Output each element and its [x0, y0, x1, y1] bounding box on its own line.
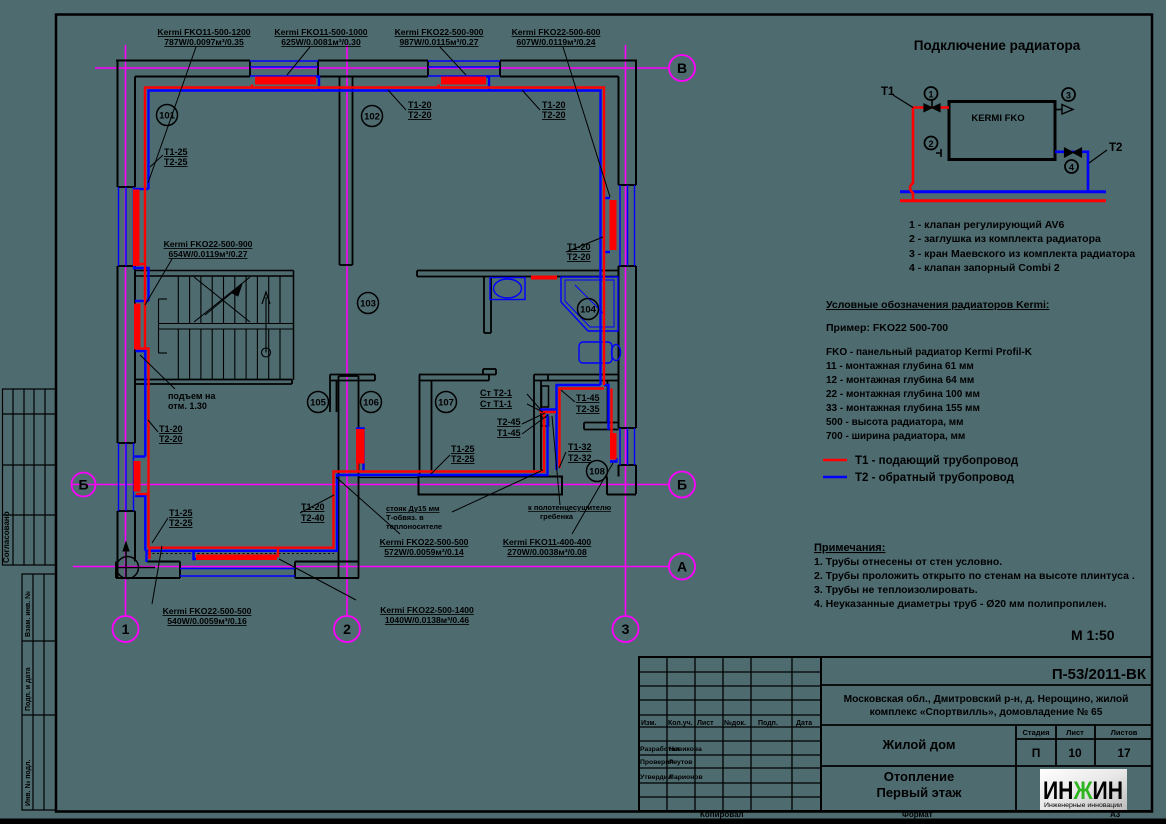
top run with corner: [149, 91, 601, 386]
svg-text:Т2-20: Т2-20: [408, 110, 432, 120]
svg-text:Ст Т2-1: Ст Т2-1: [480, 388, 512, 398]
svg-text:Т1 - подающий трубопровод: Т1 - подающий трубопровод: [855, 455, 1019, 467]
R8 blue: [356, 429, 364, 473]
svg-text:Т2-45: Т2-45: [497, 417, 521, 427]
svg-text:105: 105: [310, 398, 327, 409]
top wall pier caps: [249, 61, 251, 77]
svg-text:787W/0.0097м³/0.35: 787W/0.0097м³/0.35: [164, 37, 244, 47]
svg-text:Kermi FKO22-500-600: Kermi FKO22-500-600: [512, 27, 601, 37]
R8 room106 wall: [356, 429, 365, 464]
svg-text:П-53/2011-ВК: П-53/2011-ВК: [1052, 666, 1147, 683]
bottom loop: [149, 412, 545, 548]
staircase: [159, 276, 294, 380]
svg-text:10: 10: [1068, 746, 1082, 760]
valve 1 bowtie: [924, 104, 940, 112]
svg-text:Б: Б: [78, 477, 88, 493]
svg-text:Т2: Т2: [1109, 142, 1122, 154]
R3 jog: [135, 455, 146, 457]
stair top boundary: [134, 271, 294, 381]
svg-text:1: 1: [928, 90, 933, 100]
svg-text:4. Неуказанные диаметры труб -: 4. Неуказанные диаметры труб - Ø20 мм по…: [814, 598, 1107, 610]
R4 hook right: [277, 548, 278, 556]
bottom black band: [0, 819, 1166, 824]
axis A horizontal: [73, 566, 669, 568]
svg-text:Т2-35: Т2-35: [576, 404, 600, 414]
R8 red drop: [356, 463, 358, 472]
svg-text:Т1-25: Т1-25: [169, 508, 193, 518]
svg-text:Реутов: Реутов: [669, 759, 693, 766]
svg-text:Т2-25: Т2-25: [169, 518, 193, 528]
svg-text:3: 3: [622, 621, 630, 637]
top wall outer piers: [116, 60, 250, 62]
svg-text:Московская обл., Дмитровский р: Московская обл., Дмитровский р-н, д. Нер…: [844, 693, 1129, 705]
R2 stair left wall: [134, 304, 141, 350]
svg-text:Утвердил: Утвердил: [640, 774, 672, 781]
svg-text:Лист: Лист: [697, 720, 714, 727]
top wall inner: [135, 76, 250, 78]
stair bottom wall: [134, 380, 292, 385]
blue return T2 network: [134, 77, 617, 563]
R6 top wall W2: [441, 77, 486, 85]
svg-text:KERMI FKO: KERMI FKO: [971, 113, 1024, 124]
svg-text:11 - монтажная глубина 61 мм: 11 - монтажная глубина 61 мм: [826, 360, 974, 372]
bottom loop: [145, 414, 547, 551]
left wall window2: [118, 443, 120, 511]
entry drop: [145, 551, 147, 562]
R2 jog: [135, 300, 149, 302]
R1 jog: [135, 188, 149, 190]
svg-text:572W/0.0059м³/0.14: 572W/0.0059м³/0.14: [384, 547, 464, 557]
svg-text:Жилой дом: Жилой дом: [881, 737, 955, 752]
bathroom jog: [560, 389, 605, 469]
svg-text:Формат: Формат: [902, 810, 933, 819]
R6 hook left: [437, 85, 439, 88]
svg-text:102: 102: [364, 112, 380, 123]
break cross: [194, 277, 250, 322]
R10 towel rail: [531, 276, 557, 280]
R4 room105 bottom: [196, 555, 277, 561]
sink: [490, 278, 525, 300]
svg-text:теплоносителе: теплоносителе: [386, 522, 442, 531]
svg-text:М 1:50: М 1:50: [1071, 627, 1115, 643]
R7 hooks: [604, 197, 610, 199]
svg-text:к полотенцесушителю: к полотенцесушителю: [528, 503, 612, 512]
svg-text:Копировал: Копировал: [700, 810, 744, 819]
riser tick: [540, 411, 557, 413]
walls: [116, 61, 637, 579]
svg-text:Т1-20: Т1-20: [542, 100, 566, 110]
svg-text:500 - высота радиатора, мм: 500 - высота радиатора, мм: [826, 417, 964, 428]
svg-text:Согласовано: Согласовано: [2, 511, 11, 563]
svg-text:107: 107: [438, 398, 454, 409]
shower corner: [561, 277, 618, 331]
svg-text:Дата: Дата: [796, 720, 812, 727]
svg-text:Подп.: Подп.: [758, 720, 778, 727]
red pipe T1 to radiator: [913, 106, 949, 109]
radiator R4 hook left: [194, 551, 197, 559]
svg-text:Т1-32: Т1-32: [568, 442, 592, 452]
svg-text:4: 4: [1069, 163, 1074, 173]
entrance arrow: [116, 542, 155, 579]
R9 room108 right wall: [610, 433, 617, 460]
svg-text:Kermi FKO22-500-900: Kermi FKO22-500-900: [395, 27, 484, 37]
red supply T1 network: [136, 85, 612, 560]
room number circles: [157, 105, 608, 482]
title block outer lines: [639, 657, 1152, 811]
svg-text:Новикова: Новикова: [669, 746, 702, 753]
svg-text:1: 1: [122, 621, 130, 637]
svg-text:2 - заглушка из комплекта ради: 2 - заглушка из комплекта радиатора: [909, 233, 1101, 245]
bathroom fixtures: [490, 277, 621, 363]
bathroom jog: [557, 385, 601, 470]
radiator bottom hooks: [136, 263, 145, 265]
left attribute column top block: [3, 389, 57, 565]
axis B horizontal: [72, 484, 669, 486]
left attribute column bottom block: [22, 574, 56, 810]
svg-text:А3: А3: [1110, 810, 1121, 819]
svg-text:33 - монтажная глубина 155 мм: 33 - монтажная глубина 155 мм: [826, 402, 980, 414]
svg-text:Подп. и дата: Подп. и дата: [25, 667, 32, 711]
svg-text:Т1-45: Т1-45: [497, 428, 521, 438]
T1/T2 line legend: [823, 459, 847, 462]
svg-text:Инв. № подл.: Инв. № подл.: [24, 759, 32, 806]
branch to R9: [610, 389, 612, 434]
svg-text:108: 108: [589, 467, 605, 478]
axis 2 vertical: [346, 45, 348, 616]
svg-text:стояк Ду15 мм: стояк Ду15 мм: [386, 504, 440, 513]
svg-text:П: П: [1032, 746, 1041, 760]
svg-text:Т2-20: Т2-20: [567, 252, 591, 262]
bottom wall room105 inner: [147, 561, 180, 563]
room108 top wall: [584, 423, 619, 430]
svg-text:отм. 1.30: отм. 1.30: [168, 401, 207, 411]
svg-text:Ларионов: Ларионов: [669, 774, 703, 781]
right wall window caps: [619, 184, 637, 186]
riser tick: [540, 408, 557, 410]
svg-text:654W/0.0119м³/0.27: 654W/0.0119м³/0.27: [169, 249, 248, 259]
plug 2 bottom left: [925, 137, 938, 150]
svg-text:Отопление: Отопление: [884, 769, 955, 784]
radiator box: [949, 102, 1055, 160]
landing lines: [159, 323, 294, 325]
svg-text:987W/0.0115м³/0.27: 987W/0.0115м³/0.27: [400, 37, 479, 47]
svg-text:Т2-20: Т2-20: [542, 110, 566, 120]
svg-text:Т2 - обратный трубопровод: Т2 - обратный трубопровод: [855, 472, 1015, 484]
svg-text:Kermi FKO22-500-500: Kermi FKO22-500-500: [163, 606, 252, 616]
left signature table: [639, 657, 821, 811]
svg-text:Т2-25: Т2-25: [164, 157, 188, 167]
svg-text:2. Трубы проложить открыто по: 2. Трубы проложить открыто по стенам на …: [814, 570, 1135, 582]
svg-text:Kermi FKO11-500-1000: Kermi FKO11-500-1000: [274, 27, 367, 37]
svg-text:В: В: [677, 60, 687, 76]
R3 room105 left wall: [134, 461, 141, 492]
svg-text:№док.: №док.: [724, 719, 746, 727]
R6 hook right: [486, 77, 489, 91]
svg-text:Т1-25: Т1-25: [164, 147, 188, 157]
svg-text:Лист: Лист: [1066, 728, 1084, 737]
bathroom left wall: [484, 277, 491, 334]
svg-text:подъем на: подъем на: [168, 391, 216, 401]
svg-text:Б: Б: [677, 477, 687, 493]
svg-text:Условные обозначения радиаторо: Условные обозначения радиаторов Kermi:: [826, 299, 1049, 311]
svg-text:625W/0.0081м³/0.30: 625W/0.0081м³/0.30: [281, 37, 361, 47]
svg-text:3 - кран Маевского из комплект: 3 - кран Маевского из комплекта радиатор…: [909, 248, 1135, 260]
svg-text:540W/0.0059м³/0.16: 540W/0.0059м³/0.16: [167, 616, 247, 626]
stage header: [1022, 728, 1137, 737]
svg-text:1 - клапан регулирующий AV6: 1 - клапан регулирующий AV6: [909, 219, 1065, 231]
R5 top wall W1: [255, 77, 316, 85]
svg-text:Инженерные инновации: Инженерные инновации: [1044, 803, 1122, 809]
interior wall 105|106: [339, 376, 359, 578]
circle 1: [925, 87, 938, 100]
right wall window2: [619, 428, 621, 465]
svg-text:Т2-40: Т2-40: [301, 513, 325, 523]
upper flight steps: [177, 276, 179, 324]
entry drop: [148, 548, 150, 559]
svg-text:Т1-20: Т1-20: [301, 502, 325, 512]
svg-text:Пример: FKO22 500-700: Пример: FKO22 500-700: [826, 322, 948, 334]
svg-text:Т1-20: Т1-20: [408, 100, 432, 110]
axis lines magenta: [72, 45, 669, 616]
stair left connector: [158, 299, 160, 353]
blue return main: [900, 190, 1106, 193]
R5 hook left: [251, 85, 253, 88]
top window W2: [428, 60, 500, 62]
svg-text:Т-обвяз. в: Т-обвяз. в: [386, 513, 424, 522]
right wall window1: [619, 185, 621, 266]
blue pipe T2 from radiator right-bottom: [1055, 152, 1088, 192]
svg-text:Kermi FKO22-500-500: Kermi FKO22-500-500: [380, 537, 469, 547]
right wall outer piers: [635, 61, 637, 186]
svg-text:Взам. инв. №: Взам. инв. №: [24, 591, 32, 637]
top window W1: [250, 60, 318, 62]
R7 right wall room102: [610, 200, 617, 250]
windows blue glazing: [119, 61, 635, 576]
bathroom top wall: [417, 271, 619, 277]
svg-text:104: 104: [580, 305, 597, 316]
svg-text:ИНЖИН: ИНЖИН: [1043, 777, 1123, 805]
svg-text:Т2-32: Т2-32: [568, 453, 592, 463]
valve 4 bowtie: [1065, 148, 1082, 157]
svg-text:Т1: Т1: [881, 86, 895, 98]
axis 3 vertical: [625, 45, 627, 616]
axis 1 vertical: [125, 45, 127, 616]
room107 left wall: [420, 375, 432, 477]
mid wall segC room107 top: [419, 369, 496, 381]
svg-text:607W/0.0119м³/0.24: 607W/0.0119м³/0.24: [517, 37, 596, 47]
interior wall 101|102: [340, 77, 353, 266]
R5 hook right: [316, 77, 319, 91]
svg-text:комплекс «Спортвилль», домовл: комплекс «Спортвилль», домовладение № 65: [870, 707, 1103, 718]
top run with corner, straight left drop: [145, 88, 604, 386]
svg-text:Стадия: Стадия: [1022, 728, 1049, 737]
svg-text:103: 103: [360, 299, 376, 310]
right wall inner: [618, 77, 620, 186]
bottom window room105: [180, 568, 295, 570]
left wall inner: [134, 77, 136, 188]
svg-text:3. Трубы не теплоизолировать.: 3. Трубы не теплоизолировать.: [814, 584, 978, 596]
svg-text:Kermi FKO22-500-900: Kermi FKO22-500-900: [164, 239, 253, 249]
svg-text:Т1-25: Т1-25: [451, 444, 475, 454]
svg-text:Т1-20: Т1-20: [567, 242, 591, 252]
bottom wall room105 outer: [116, 577, 180, 579]
legend list: [909, 219, 1135, 274]
axis V horizontal: [95, 67, 668, 69]
svg-text:2: 2: [343, 621, 351, 637]
bottom wall caps: [179, 562, 181, 579]
svg-text:Кол.уч.: Кол.уч.: [668, 720, 693, 727]
svg-text:2: 2: [928, 139, 933, 149]
svg-text:Kermi FKO11-500-1200: Kermi FKO11-500-1200: [157, 27, 250, 37]
svg-text:Т2-20: Т2-20: [159, 434, 183, 444]
svg-text:Kermi FKO22-500-1400: Kermi FKO22-500-1400: [380, 605, 474, 615]
svg-text:4 - клапан запорный Combi 2: 4 - клапан запорный Combi 2: [909, 262, 1060, 274]
vent 3 at top right: [1055, 109, 1062, 111]
svg-text:Изм.: Изм.: [641, 720, 657, 727]
svg-text:Листов: Листов: [1111, 728, 1138, 737]
header row text: [641, 719, 812, 727]
svg-text:3: 3: [1066, 91, 1071, 101]
shaft slots: [542, 386, 549, 407]
svg-text:700 - ширина радиатора, мм: 700 - ширина радиатора, мм: [826, 431, 965, 442]
left wall window1: [118, 187, 120, 266]
svg-text:Т2-25: Т2-25: [451, 454, 475, 464]
R1 room101 left wall: [133, 190, 140, 267]
svg-text:Примечания:: Примечания:: [814, 542, 885, 554]
svg-text:17: 17: [1117, 746, 1131, 760]
svg-text:1. Трубы отнесены от стен усло: 1. Трубы отнесены от стен условно.: [814, 556, 1002, 568]
svg-text:А: А: [677, 559, 687, 575]
svg-text:Ст Т1-1: Ст Т1-1: [480, 399, 512, 409]
svg-text:Т1-20: Т1-20: [159, 424, 183, 434]
svg-text:106: 106: [363, 398, 379, 409]
svg-text:Подключение радиатора: Подключение радиатора: [914, 38, 1081, 53]
B-line bottom wall right part: [419, 477, 563, 495]
red supply main: [900, 199, 1106, 202]
bath tub: [579, 342, 612, 363]
svg-text:Kermi FKO11-400-400: Kermi FKO11-400-400: [503, 537, 592, 547]
left wall window caps: [118, 186, 136, 188]
svg-text:1040W/0.0138м³/0.46: 1040W/0.0138м³/0.46: [385, 615, 469, 625]
svg-text:Первый этаж: Первый этаж: [876, 785, 962, 800]
wall right of towel zone: [607, 381, 609, 423]
svg-text:22 - монтажная глубина 100 мм: 22 - монтажная глубина 100 мм: [826, 388, 980, 400]
svg-text:270W/0.0038м³/0.08: 270W/0.0038м³/0.08: [507, 547, 587, 557]
lower flight steps: [177, 329, 179, 380]
svg-text:гребенка: гребенка: [540, 512, 574, 521]
logo: [1040, 769, 1127, 810]
mid wall segB: [330, 375, 375, 413]
svg-text:12 - монтажная глубина 64 мм: 12 - монтажная глубина 64 мм: [826, 374, 974, 386]
right part lines: [821, 685, 1152, 811]
svg-text:Т1-45: Т1-45: [576, 393, 600, 403]
left wall outer piers: [117, 61, 119, 188]
branch to R9: [604, 385, 609, 430]
direction arrow: [265, 297, 267, 353]
axis circles: [72, 55, 696, 642]
svg-text:FKO - панельный радиатор Kerm: FKO - панельный радиатор Kermi Profil-K: [826, 347, 1033, 358]
shaft walls right of room107: [534, 375, 619, 471]
plinth dotted line room105: [148, 553, 334, 555]
